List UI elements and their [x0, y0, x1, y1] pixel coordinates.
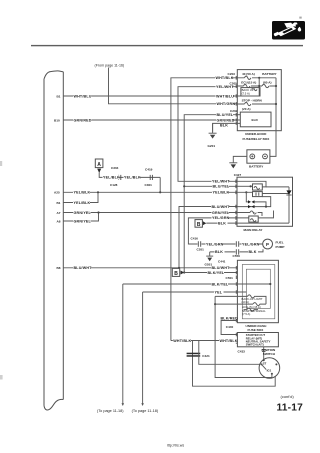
wire YEL to page 11-18 (right drop)	[142, 292, 144, 404]
svg-text:A: A	[97, 162, 101, 168]
wire label WHT/BLU (at fuse box)	[216, 94, 235, 98]
wire label WHT/BLK (at fuse box)	[215, 76, 234, 80]
wire label GRN/RED (at fuse box)	[216, 118, 235, 122]
wire label BLK (at main relay)	[218, 221, 228, 225]
battery box	[247, 150, 270, 163]
wire label YEL/BLK (jumper)	[103, 175, 121, 179]
svg-text:C421: C421	[202, 354, 210, 358]
battery positive terminal	[250, 154, 255, 159]
BACK UP fuse sub-box	[241, 88, 260, 96]
fuse ECU (15 A) row wire	[237, 85, 276, 87]
ground G551 symbol	[206, 252, 213, 261]
junction dot BLK/YEL row	[183, 271, 185, 273]
wire BLK/YEL to page 11-18 (left drop)	[122, 284, 124, 404]
svg-text:YEL/BLK: YEL/BLK	[124, 176, 141, 180]
junction dot YEL/BLK jumper	[159, 191, 161, 193]
main relay left edge connector ticks	[235, 180, 237, 225]
svg-text:UNDER-HOOD: UNDER-HOOD	[245, 132, 267, 136]
wire battery to ground	[233, 156, 247, 162]
wire label BLK/YEL (row 2)	[211, 282, 229, 286]
wire label BLK (fuel pump right)	[248, 250, 258, 254]
svg-text:STOP - HORN: STOP - HORN	[242, 99, 263, 103]
wire BLU/YEL into ELD	[237, 114, 240, 116]
svg-text:B1: B1	[57, 201, 61, 205]
svg-text:GRN/YEL: GRN/YEL	[74, 219, 92, 223]
wire label YEL	[214, 290, 224, 294]
svg-text:C427: C427	[234, 173, 242, 177]
wire label BLU/WHT (left)	[73, 266, 92, 270]
svg-text:G551: G551	[205, 263, 213, 267]
main relay internal: row2 wire	[237, 185, 253, 187]
wire YEL/WHT vertical from fuse box to main relay	[178, 87, 237, 182]
svg-text:(20 A): (20 A)	[242, 107, 250, 111]
wire label WHT/BLU (left)	[73, 94, 92, 98]
svg-text:C416: C416	[191, 237, 199, 241]
wire label GRN/RED (left)	[73, 118, 92, 122]
svg-text:BATTERY: BATTERY	[262, 72, 277, 76]
svg-text:BLK: BLK	[249, 250, 257, 254]
svg-text:GRN/RED: GRN/RED	[74, 118, 92, 122]
connector C416/C551 ticks	[198, 241, 200, 246]
svg-text:YEL/BLK: YEL/BLK	[74, 201, 91, 205]
svg-text:YEL/WHT: YEL/WHT	[212, 180, 230, 184]
svg-text:A8: A8	[57, 219, 61, 223]
svg-text:YEL/GRN: YEL/GRN	[242, 242, 260, 246]
wire BLK/RED out of under-dash box	[221, 321, 237, 335]
main relay internal: junction dot row2	[250, 185, 252, 187]
svg-text:(From page 11-16): (From page 11-16)	[95, 64, 125, 68]
svg-text:FUEL: FUEL	[276, 240, 284, 244]
svg-text:B1: B1	[57, 94, 61, 98]
svg-text:(cont'd): (cont'd)	[281, 394, 295, 399]
svg-text:GRN/YEL: GRN/YEL	[74, 211, 92, 215]
svg-text:C419: C419	[145, 168, 153, 172]
header rule	[31, 45, 303, 46]
fuel pump motor circle	[263, 239, 273, 249]
svg-text:BLU/YEL: BLU/YEL	[213, 185, 230, 189]
svg-text:ACG (S) (15 A): ACG (S) (15 A)	[242, 305, 261, 309]
wire WHT/BLK vertical from fuse box row to ignition area	[171, 78, 237, 341]
svg-text:G201: G201	[208, 144, 216, 148]
bus link between fuse rows	[258, 78, 260, 96]
junction dot A25/B1	[97, 191, 99, 193]
fuse box left edge connector ticks	[235, 76, 237, 125]
wire BLK from ELD to ground G201	[213, 123, 241, 131]
svg-text:YEL: YEL	[215, 290, 223, 294]
fuse STOP-HORN row wire	[237, 103, 276, 105]
svg-text:MAIN RELAY: MAIN RELAY	[244, 228, 264, 232]
wire label WHT/GRN	[216, 102, 235, 106]
svg-text:B: B	[197, 222, 201, 228]
wire GRN/YEL from pin A7 to main relay	[63, 212, 237, 214]
under-dash fuse ACG wire	[215, 303, 266, 305]
under-dash fuse BACK-UP LIGHT wire	[215, 296, 266, 304]
fuel system section icon	[272, 17, 305, 40]
page edge speck 2	[0, 375, 3, 380]
wire label YEL/GRN (at main relay)	[212, 216, 230, 220]
svg-text:WHT/BLU: WHT/BLU	[74, 94, 92, 98]
svg-text:YEL/BLK: YEL/BLK	[74, 191, 91, 195]
svg-text:C556: C556	[233, 254, 241, 258]
svg-text:SWITCH (A/T): SWITCH (A/T)	[246, 343, 264, 347]
connector C433 ticks	[262, 349, 266, 351]
ignition switch terminal dots	[261, 363, 263, 365]
svg-text:BLK: BLK	[220, 124, 228, 128]
junction dot fuse row 1	[258, 77, 260, 79]
page edge speck 1	[0, 161, 2, 166]
svg-text:WHT/BLK: WHT/BLK	[173, 339, 191, 343]
ELD sub-box	[240, 112, 271, 127]
wire label BLK/YEL (under-dash row 1)	[207, 270, 225, 274]
wire label YEL/GRN (fuel pump right)	[242, 242, 260, 246]
svg-text:FUSE BOX: FUSE BOX	[248, 328, 265, 332]
wire BLK from ground G551 to fuel pump	[210, 249, 263, 252]
battery feed vertical inside fuse box down to battery	[270, 78, 276, 157]
svg-text:(80 A): (80 A)	[263, 80, 271, 84]
svg-text:BLU/YEL: BLU/YEL	[217, 113, 234, 117]
wire WHT/BLU inside fuse box to BACK UP fuse	[237, 95, 259, 97]
svg-text:C304: C304	[111, 166, 119, 170]
main relay internal: coil box lower	[249, 216, 258, 222]
junction dot BLU/WHT branch	[178, 267, 180, 269]
wire label WHT/BLK (right)	[219, 338, 238, 342]
svg-text:C551: C551	[197, 247, 205, 251]
under-dash internal bus loop inner	[246, 269, 270, 308]
svg-text:BLK/YEL: BLK/YEL	[208, 271, 225, 275]
main relay internal: link row3 to row4 contacts	[246, 192, 248, 202]
wire BLU/WHT from pin B8 to under-dash fuse box	[63, 267, 237, 269]
under-hood fuse/relay box	[237, 70, 281, 131]
svg-text:P: P	[266, 242, 269, 247]
svg-text:GRN/YEL: GRN/YEL	[212, 211, 230, 215]
under-dash fuse ACG symbol	[253, 303, 261, 306]
node A in-page reference box with arrow	[95, 159, 103, 173]
svg-text:ECU(15 A): ECU(15 A)	[241, 80, 256, 84]
svg-text:WHT/BLU: WHT/BLU	[216, 94, 234, 98]
wire YEL/BLK from pin A25 to main relay	[63, 191, 237, 193]
main relay internal: row3 wire	[237, 192, 289, 193]
wire BLK/YEL from junction to under-dash fuse box	[184, 272, 237, 274]
main relay internal: row4 wire	[237, 197, 271, 207]
main relay internal: junction dot row4	[265, 206, 267, 208]
main relay internal: contact marks lower	[248, 205, 255, 208]
fuse (80 A) symbol	[262, 84, 269, 87]
wire label YEL/BLK (A25)	[73, 190, 91, 194]
svg-text:(To page 11-18): (To page 11-18)	[97, 409, 124, 413]
svg-text:A25: A25	[54, 191, 60, 195]
under-dash fuse STARTER SIGNAL symbol	[244, 308, 259, 311]
fuse STOP-HORN symbol	[245, 102, 251, 105]
wire YEL/BLK jumper from node A through C304/C128 and C419/C301	[99, 173, 160, 193]
svg-text:SWITCH: SWITCH	[263, 352, 276, 356]
fuse 40 (50 A) row wire	[237, 77, 276, 79]
svg-text:BATTERY: BATTERY	[249, 164, 264, 168]
svg-text:(7.5 A): (7.5 A)	[242, 312, 250, 316]
svg-text:C441: C441	[218, 260, 226, 264]
wire from starter cut relay down to ignition switch	[263, 347, 265, 359]
main relay internal: coil humps row5	[250, 211, 256, 214]
svg-text:C202: C202	[230, 109, 238, 113]
ignition switch circle	[259, 358, 280, 379]
starter cut relay / neutral safety switch box	[237, 333, 278, 347]
svg-text:BLK: BLK	[215, 250, 223, 254]
main relay internal: contact marks upper	[248, 200, 255, 203]
svg-text:YEL/BLK: YEL/BLK	[103, 176, 120, 180]
fuse ECU (15 A) symbol	[244, 84, 250, 87]
svg-text:IG1: IG1	[267, 368, 272, 372]
junction dot BLU/YEL at main relay row	[183, 185, 185, 187]
wire label YEL/WHT (at main relay)	[212, 179, 231, 183]
svg-text:ST: ST	[263, 361, 267, 365]
connector C304/C128 ticks	[119, 175, 121, 180]
battery terminal marks	[251, 155, 266, 157]
fuse 40 (50 A) symbol	[245, 76, 251, 79]
wire label YEL/BLK (at main relay)	[212, 190, 230, 194]
svg-text:YEL/GRN: YEL/GRN	[206, 242, 224, 246]
arrowhead to page 11-18 (right)	[141, 403, 144, 406]
svg-text:40 (50 A): 40 (50 A)	[242, 72, 255, 76]
wire label BLU/YEL (at fuse box)	[216, 113, 234, 117]
wire BLU/YEL vertical from fuse box ELD down to under-dash row	[184, 115, 237, 273]
connector C421 plates	[187, 353, 201, 357]
wire YEL/BLK branch from pin B1	[63, 192, 98, 202]
ECM connector outline (torn-edge strip)	[44, 71, 63, 410]
svg-text:C440: C440	[226, 325, 234, 329]
svg-text:B10: B10	[54, 118, 60, 122]
svg-text:B: B	[174, 271, 178, 277]
svg-text:BLU/WHT: BLU/WHT	[212, 266, 231, 270]
main relay internal: coil box top	[253, 184, 263, 190]
ground symbol (battery)	[229, 163, 237, 169]
ignition switch contact arm	[262, 364, 267, 369]
wire label GRN/YEL (at main relay)	[212, 210, 231, 214]
svg-text:ELD: ELD	[252, 118, 259, 122]
svg-text:WHT/GRN: WHT/GRN	[217, 102, 236, 106]
svg-text:WHT/BLK: WHT/BLK	[220, 339, 238, 343]
wire label YEL/WHT (at fuse box)	[216, 85, 235, 89]
wire label WHT/BLK (left)	[173, 338, 192, 342]
wire BLU/YEL branch to main relay	[184, 185, 237, 187]
svg-text:C301: C301	[145, 183, 153, 187]
svg-text:PUMP: PUMP	[276, 245, 285, 249]
junction dot BLK/YEL row 2	[269, 283, 271, 285]
node B in-page reference box with arrow (BLK/YEL row)	[172, 268, 184, 277]
main relay internal: contact plates	[256, 193, 259, 196]
under-dash fuse box left edge ticks	[235, 266, 237, 322]
IG1 bus wire from ignition switch up to under-dash fuses	[215, 296, 272, 377]
starter cut relay left edge ticks	[235, 333, 237, 344]
svg-text:C203: C203	[228, 72, 236, 76]
main relay internal: coil humps top	[254, 186, 260, 189]
main relay internal: row6 wire	[237, 211, 274, 218]
wire label YEL/BLK (B1)	[73, 200, 91, 204]
wire YEL/GRN from main relay down to fuel pump	[188, 218, 262, 244]
junction dot fuse row 2	[258, 85, 260, 87]
main relay internal: junction dot row3	[245, 191, 247, 193]
svg-text:YEL/BLK: YEL/BLK	[213, 191, 230, 195]
wire GRN/RED from pin B10 to under-hood fuse box	[63, 119, 237, 121]
svg-text:C433: C433	[238, 349, 246, 353]
wire label BLU/WHT (at under-dash box)	[211, 266, 230, 270]
battery negative terminal	[263, 154, 268, 159]
wire WHT/BLK horizontal to C421 and relay box	[171, 340, 238, 342]
node B in-page reference box with arrow (BLK to main relay)	[195, 220, 237, 228]
svg-text:C205: C205	[230, 82, 238, 86]
main relay internal: row7 BLK wire	[237, 222, 289, 224]
svg-text:BLK/RED: BLK/RED	[221, 316, 239, 320]
main relay box	[237, 177, 293, 226]
wire BLU/WHT branch up to main relay	[179, 207, 237, 268]
svg-text:(To page 11-18): (To page 11-18)	[132, 409, 159, 413]
wire label GRN/YEL (A8)	[73, 219, 92, 223]
svg-text:(10 A): (10 A)	[242, 300, 249, 304]
wire GRN/RED into ELD	[237, 119, 240, 121]
junction dot A7/A8	[97, 211, 99, 213]
svg-text:BLU/WHT: BLU/WHT	[212, 205, 231, 209]
wire WHT/BLU from pin B1 to under-hood fuse box	[63, 95, 237, 97]
svg-text:WHT/BLK: WHT/BLK	[216, 76, 234, 80]
svg-text:FUSE/RELAY BOX: FUSE/RELAY BOX	[243, 137, 271, 141]
svg-text:(7.5 A): (7.5 A)	[242, 91, 250, 95]
svg-text:C128: C128	[110, 183, 118, 187]
svg-text:BLU/WHT: BLU/WHT	[74, 266, 93, 270]
wire label BLK (fuel pump left)	[215, 250, 225, 254]
junction dot STOP-HORN to battery feed	[275, 103, 277, 105]
wire label BLU/YEL (at main relay)	[212, 184, 230, 188]
main relay internal: diode	[266, 187, 292, 223]
wire from page 11-16 down to WHT/GRN row	[109, 68, 238, 104]
connector C419/C301 ticks	[150, 175, 152, 180]
main relay internal: contact box	[253, 192, 263, 197]
under-dash fuse BACK-UP LIGHT symbol	[248, 295, 256, 298]
svg-text:11-17: 11-17	[277, 403, 304, 414]
wire label BLU/WHT (at main relay)	[211, 204, 230, 208]
svg-text:GRN/RED: GRN/RED	[217, 118, 235, 122]
junction dot battery feed row2	[275, 85, 277, 87]
wire BLK/YEL row 2 into under-dash box	[123, 283, 270, 285]
under-dash internal bus loop outer	[242, 265, 274, 319]
wire label GRN/YEL (A7)	[73, 210, 92, 214]
BACK UP fuse symbol	[252, 88, 257, 91]
main relay internal: coil humps lower	[250, 219, 256, 222]
main relay internal: row5 wire with coil humps	[237, 213, 262, 217]
svg-text:BLK/YEL: BLK/YEL	[212, 282, 229, 286]
svg-text:ittp://trs.ws: ittp://trs.ws	[167, 444, 184, 448]
svg-text:YEL/GRN: YEL/GRN	[212, 216, 230, 220]
wire WHT/BLK branch down to ignition switch BAT	[199, 341, 260, 365]
ground G201 symbol	[209, 123, 217, 138]
wire YEL into under-dash box	[143, 291, 247, 293]
wire label YEL/BLK (jumper right)	[124, 175, 142, 179]
connector C556 ticks (both wires)	[236, 241, 238, 254]
svg-text:BLK: BLK	[218, 221, 226, 225]
under-dash fuse box	[237, 260, 278, 322]
svg-text:B8: B8	[57, 266, 61, 270]
wire down through C421 to ignition switch loop	[193, 341, 276, 387]
wire label YEL/GRN (fuel pump left)	[206, 242, 224, 246]
arrowhead to page 11-18 (left)	[122, 403, 125, 406]
main relay internal: row1 feed	[237, 181, 266, 187]
wire GRN/YEL branch from pin A8	[63, 213, 98, 222]
svg-text:C501: C501	[226, 276, 234, 280]
main relay internal: upper contact link	[255, 202, 267, 207]
svg-text:A7: A7	[57, 211, 61, 215]
junction dot ACG feed	[214, 303, 216, 305]
